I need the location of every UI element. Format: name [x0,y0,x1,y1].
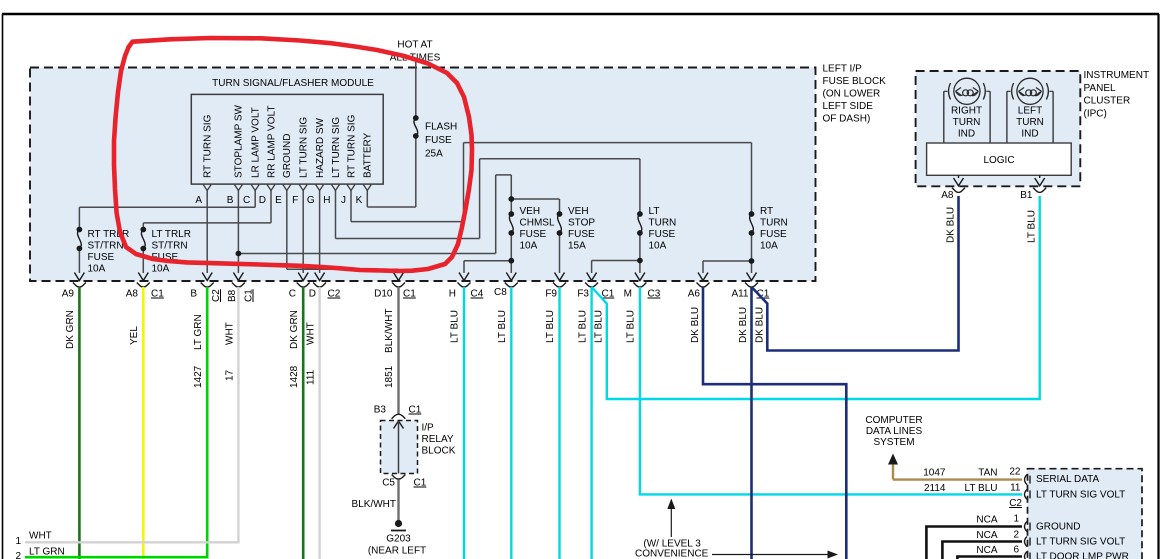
wire DK BLU from A11 [750,287,753,559]
svg-text:M: M [624,289,632,300]
wire YEL from A8 [142,287,145,559]
wire LT BLU F3 branch to IPC B1 [592,196,1040,399]
module pin letters [195,195,362,206]
wire pin J right [351,221,464,223]
wire LT BLU from F3 [590,287,592,559]
svg-text:B1: B1 [1020,190,1033,201]
svg-text:LT BLU: LT BLU [450,310,461,343]
svg-text:LT: LT [649,206,660,217]
computer data lines arrow [888,454,898,480]
svg-text:SERIAL DATA: SERIAL DATA [1036,474,1099,485]
svg-text:C2: C2 [211,289,222,302]
fuse LT TRLR ST/TRN 10A [141,227,146,251]
svg-text:BLOCK: BLOCK [422,446,456,457]
svg-text:(NEAR LEFT: (NEAR LEFT [368,546,426,557]
wire pin D to LT TRLR fuse [143,222,271,224]
svg-text:H: H [323,195,330,206]
wire VEH CHMSL fuse drop [510,175,512,214]
svg-text:LT TURN SIG: LT TURN SIG [299,117,310,178]
svg-text:E: E [275,195,282,206]
wire pin C down [254,191,256,208]
wire RT TRLR fuse to connector A9 [78,207,80,229]
svg-text:H: H [449,289,456,300]
wire VEH CHMSL branch to H [464,260,511,262]
svg-text:VEH: VEH [520,206,541,217]
module pin name labels (vertical) [203,104,374,178]
wire hot feed to flash fuse [415,62,417,118]
fuse VEH CHMSL 10A [509,212,514,236]
label LEFT TURN IND [1016,106,1044,140]
svg-text:A11: A11 [731,289,748,300]
svg-text:G203: G203 [386,534,411,545]
svg-text:LT BLU: LT BLU [545,310,556,343]
wire pin B down to connector B8 [237,191,239,274]
svg-text:(IPC): (IPC) [1084,108,1107,119]
svg-text:B3: B3 [374,405,387,416]
svg-text:F9: F9 [545,289,557,300]
wire feed to RT TURN fuse [464,142,752,144]
svg-text:LT TURN SIG: LT TURN SIG [331,117,342,178]
connector F9 pin [553,273,566,288]
label RT TRLR fuse [88,229,130,275]
wire pin A down to connector B [206,191,208,274]
connector A11 pin [745,273,758,288]
svg-text:LT BLU: LT BLU [965,483,998,494]
svg-text:C1: C1 [151,289,164,300]
svg-text:BLK/WHT: BLK/WHT [384,309,395,353]
svg-text:FUSE BLOCK: FUSE BLOCK [823,76,887,87]
label VEH STOP fuse [568,206,595,252]
svg-text:TURN: TURN [953,117,981,128]
connector D10 pin [392,273,405,288]
wire DK BLU from A6 [703,287,846,559]
turn signal flasher module box [191,94,383,184]
svg-text:A: A [195,195,202,206]
svg-text:A8: A8 [941,190,954,201]
svg-text:B: B [190,289,197,300]
label NCA 2 [976,530,1019,542]
junction RT TURN bottom [749,259,754,264]
svg-text:A9: A9 [62,289,75,300]
svg-text:C: C [243,195,250,206]
svg-text:D: D [259,195,266,206]
svg-text:LT DOOR LMP PWR: LT DOOR LMP PWR [1036,552,1129,559]
svg-text:22: 22 [1009,467,1021,478]
svg-text:HOT AT: HOT AT [397,40,432,51]
wire WHT 17 from B8 [25,287,238,542]
fuse labels [88,122,788,275]
svg-text:C1: C1 [414,478,427,489]
wire DK GRN 1428 from C [302,287,305,559]
svg-text:STOP: STOP [568,217,595,228]
svg-text:NCA: NCA [976,530,997,541]
svg-text:LT GRN: LT GRN [29,546,65,557]
wire LT GRN 1427 from B [25,287,207,557]
junction pin B stop branch [236,251,241,256]
bottom connector arrowheads and cups [73,273,758,288]
svg-text:LOGIC: LOGIC [983,155,1014,166]
junction CHMSL top [509,197,514,202]
svg-text:BLK/WHT: BLK/WHT [352,499,396,510]
svg-text:11: 11 [1010,483,1021,494]
svg-text:FUSE: FUSE [88,252,115,263]
lamp RIGHT TURN IND [944,78,990,143]
fuse RT TURN 10A [749,212,754,236]
svg-text:IND: IND [1021,129,1038,140]
W/ LEVEL 3 CONVENIENCE callout [635,499,838,559]
connector F3 pin [585,273,598,288]
module pin chevrons A-K [203,185,371,191]
svg-text:COMPUTER: COMPUTER [865,415,922,426]
svg-text:K: K [356,195,363,206]
svg-text:C2: C2 [328,289,341,300]
wire BLK/WHT 1851 from D10 [397,287,399,415]
svg-text:LT TRLR: LT TRLR [152,229,191,240]
page border right [1157,14,1159,559]
svg-text:LEFT I/P: LEFT I/P [823,64,863,75]
wire NCA pin2 [942,542,1022,559]
ground G203 [391,520,406,531]
svg-text:FUSE: FUSE [649,229,676,240]
svg-text:RELAY: RELAY [422,434,454,445]
svg-text:ST/TRN: ST/TRN [152,241,188,252]
svg-text:YEL: YEL [129,326,140,345]
svg-text:I/P: I/P [422,423,435,434]
svg-text:LEFT: LEFT [1018,106,1042,117]
svg-text:10A: 10A [152,264,170,275]
svg-text:PANEL: PANEL [1084,83,1116,94]
fuse RT TRLR ST/TRN 10A [77,227,82,251]
lamp LEFT TURN IND [1007,78,1053,143]
svg-text:2114: 2114 [924,483,946,494]
label I/P RELAY BLOCK [422,423,456,457]
svg-text:FUSE: FUSE [425,135,452,146]
wire LT TURN fuse drop [639,159,641,214]
svg-text:DK BLU: DK BLU [690,307,701,343]
page border left [2,14,4,559]
wire pin G down to connector D [319,191,321,274]
wire DK GRN from A9 [78,287,81,559]
label LT TURN fuse [649,206,677,252]
label VEH CHMSL fuse [520,206,555,252]
wire LT TURN fuse branch to F3 [592,260,640,262]
svg-text:GROUND: GROUND [282,134,293,178]
svg-text:TAN: TAN [978,468,997,479]
svg-text:LT GRN: LT GRN [193,314,204,350]
svg-text:LR LAMP VOLT: LR LAMP VOLT [251,107,262,178]
left I/P fuse block box [30,68,816,282]
svg-text:GROUND: GROUND [1036,522,1080,533]
svg-text:A8: A8 [126,289,139,300]
svg-text:BATTERY: BATTERY [363,132,374,178]
svg-text:RIGHT: RIGHT [951,106,982,117]
svg-text:(ON LOWER: (ON LOWER [823,89,881,100]
wire RT TURN fuse branch to A6 [703,260,752,262]
relay bottom connector C5/C1 [392,475,406,480]
svg-text:10A: 10A [649,241,667,252]
svg-text:LT BLU: LT BLU [626,310,637,343]
fuse VEH STOP 15A [557,212,562,236]
IPC pin B1 [1033,175,1046,192]
svg-text:2: 2 [1013,530,1019,541]
svg-text:J: J [341,195,346,206]
instrument panel cluster box [916,71,1081,186]
wire LT BLU from C8 [510,287,512,559]
label COMPUTER DATA LINES SYSTEM [865,415,922,448]
connector D pin [313,273,326,288]
svg-text:C8: C8 [494,287,507,298]
svg-text:1: 1 [15,536,21,547]
label NCA 6 [976,545,1019,557]
svg-text:C1: C1 [244,289,255,302]
svg-text:WHT: WHT [306,322,317,345]
svg-text:NCA: NCA [976,545,997,556]
wire DK BLU C1 branch to IPC A8 [752,196,959,351]
logic box U1 [927,143,1072,175]
svg-text:RR LAMP VOLT: RR LAMP VOLT [266,106,277,178]
serial data module box [1028,469,1143,559]
svg-text:RT TURN SIG: RT TURN SIG [203,114,214,178]
svg-text:25A: 25A [425,149,443,160]
svg-text:WHT: WHT [225,322,236,345]
fuse FLASH 25A [413,116,418,139]
wire feed to LT TURN fuse [480,158,640,160]
serial data box labels [1036,474,1129,559]
relay internal wire [398,421,400,474]
svg-text:FUSE: FUSE [568,229,595,240]
wire pin K to flash fuse [367,206,416,208]
svg-text:LT TURN SIG VOLT: LT TURN SIG VOLT [1036,537,1125,548]
serial data box pins [1025,475,1031,559]
svg-text:G: G [307,195,315,206]
svg-text:1: 1 [1013,514,1019,525]
svg-text:OF DASH): OF DASH) [823,114,871,125]
connector C8 pin [505,273,518,288]
label FLASH fuse [425,122,457,160]
svg-text:C1: C1 [602,289,615,300]
svg-text:A6: A6 [688,289,701,300]
wire pin H down [335,191,337,239]
svg-text:B8: B8 [227,289,238,302]
svg-text:TURN SIGNAL/FLASHER MODULE: TURN SIGNAL/FLASHER MODULE [212,78,374,89]
svg-text:CLUSTER: CLUSTER [1084,96,1131,107]
wire pin H right [336,238,480,240]
svg-text:15A: 15A [568,241,586,252]
junction LT TURN bottom [638,258,643,263]
wire BLK/WHT to G203 [397,480,399,521]
svg-text:DK BLU: DK BLU [946,207,957,243]
svg-text:10A: 10A [760,241,778,252]
svg-text:LT BLU: LT BLU [497,310,508,343]
svg-text:INSTRUMENT: INSTRUMENT [1084,70,1150,81]
svg-text:STOPLAMP SW: STOPLAMP SW [234,104,245,178]
svg-text:FUSE: FUSE [760,229,787,240]
svg-text:WHT: WHT [29,530,52,541]
svg-text:C1: C1 [409,405,422,416]
wire LT BLU from F9 [558,287,560,559]
svg-text:B: B [227,195,234,206]
junction CHMSL bottom [509,258,514,263]
wire VEH STOP fuse drop to F9 [559,199,561,214]
svg-text:2: 2 [15,551,21,559]
svg-text:1851: 1851 [384,365,395,388]
svg-text:DK BLU: DK BLU [738,307,749,343]
svg-text:IND: IND [958,129,975,140]
wire pin F down to connector C [302,191,304,274]
wire riser to LT TURN feed [479,159,481,239]
wire RT TURN fuse drop [751,143,753,214]
connector H pin [458,273,471,288]
bottom connector labels [62,287,770,302]
I/P relay block box [381,421,418,474]
svg-text:17: 17 [225,369,236,381]
label LT TRLR fuse [152,229,191,275]
wire LT TRLR fuse to connector A8 [142,223,144,229]
svg-text:F3: F3 [577,289,589,300]
svg-text:FUSE: FUSE [520,229,547,240]
svg-text:CONVENIENCE: CONVENIENCE [635,548,709,559]
connector B8 pin [232,273,245,288]
relay top connector B3/C1 [392,414,406,428]
label HOT AT ALL TIMES [390,40,441,64]
svg-text:TURN: TURN [760,217,788,228]
connector A9 pin [73,273,86,288]
svg-text:111: 111 [306,369,317,385]
wire branch to VEH STOP fuse [511,198,559,200]
svg-text:TURN: TURN [649,217,677,228]
svg-text:1428: 1428 [289,365,300,388]
connector M pin [633,273,646,288]
svg-text:LT BLU: LT BLU [1027,210,1038,243]
svg-text:HAZARD SW: HAZARD SW [315,117,326,178]
svg-text:TURN: TURN [1016,117,1044,128]
svg-text:D10: D10 [374,289,393,300]
svg-text:C2: C2 [1009,498,1022,509]
label RIGHT TURN IND [951,106,982,140]
svg-text:6: 6 [1013,545,1019,556]
red hand-drawn circle [114,38,472,271]
connector A8 pin [137,273,150,288]
svg-text:1047: 1047 [923,468,946,479]
wire LT BLU from H [463,287,465,559]
svg-text:D: D [309,289,316,300]
wire pin B branch to stop fuses [238,253,495,255]
wire riser to RT TURN feed [463,143,465,222]
label LEFT I/P FUSE BLOCK [823,64,887,125]
svg-text:DATA LINES: DATA LINES [866,426,923,437]
svg-text:10A: 10A [88,264,106,275]
connector C pin [297,273,310,288]
label RT TURN fuse [760,206,788,252]
wire NCA pin1 [926,527,1022,559]
svg-text:F: F [292,195,298,206]
svg-text:SYSTEM: SYSTEM [873,437,914,448]
svg-text:RT TURN SIG: RT TURN SIG [346,114,357,178]
svg-text:C: C [289,289,296,300]
svg-text:DK BLU: DK BLU [755,307,766,343]
svg-text:10A: 10A [520,241,538,252]
wire pin K down [366,191,368,208]
fuse LT TURN 10A [638,212,643,236]
svg-text:CHMSL: CHMSL [520,217,555,228]
connector B pin [201,273,214,288]
svg-text:DK GRN: DK GRN [289,310,300,349]
svg-text:DK GRN: DK GRN [65,310,76,349]
svg-text:LEFT SIDE: LEFT SIDE [823,101,874,112]
svg-text:C1: C1 [403,289,416,300]
wire LT BLU 2114 from M to serial data [640,287,1022,494]
wire TAN 1047 serial data [893,478,1022,480]
svg-text:LT TURN SIG VOLT: LT TURN SIG VOLT [1036,490,1125,501]
wire pin C to RT TRLR fuse [79,206,255,208]
svg-text:FLASH: FLASH [425,122,457,133]
svg-text:LT BLU: LT BLU [594,310,605,343]
svg-text:ST/TRN: ST/TRN [88,241,124,252]
wire WHT 111 from D [318,287,320,559]
wire D10 drop [398,269,400,273]
wire pin E to D10 [287,268,399,270]
wire pin J down [350,191,352,222]
svg-text:NCA: NCA [976,515,997,526]
wire NCA pin6 [957,557,1022,559]
label NCA 1 [976,514,1019,526]
svg-text:C5: C5 [382,478,395,489]
wire pin D down [270,191,272,223]
svg-text:RT: RT [760,206,773,217]
label INSTRUMENT PANEL CLUSTER [1084,70,1150,119]
svg-text:C3: C3 [648,289,661,300]
wire pin E down [286,191,288,270]
svg-text:C4: C4 [471,289,484,300]
svg-text:VEH: VEH [568,206,589,217]
page border top [2,13,1159,15]
connector A6 pin [697,273,710,288]
svg-text:1427: 1427 [193,365,204,388]
IPC pin A8 [952,175,965,192]
svg-text:LT BLU: LT BLU [578,310,589,343]
